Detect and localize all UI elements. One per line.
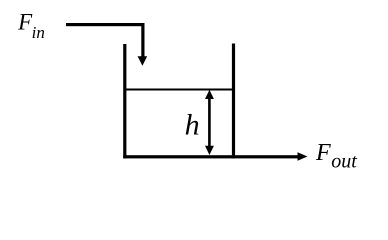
arrowhead inflow (down) (138, 56, 148, 66)
wire inflow horizontal segment (66, 23, 145, 26)
node F_in label (17, 10, 45, 42)
dimension arrow h (double headed vertical) (205, 90, 214, 155)
tank bottom (123, 155, 298, 158)
liquid level line (124, 89, 234, 91)
arrowhead outflow (right) (298, 152, 308, 161)
svg-text:F: F (315, 140, 331, 166)
wire inflow vertical segment (141, 23, 144, 58)
node F_out label (315, 140, 357, 172)
tank right wall (232, 44, 235, 159)
svg-text:h: h (185, 109, 200, 142)
svg-text:in: in (32, 23, 45, 42)
svg-text:out: out (331, 151, 357, 173)
tank left wall (123, 44, 126, 159)
